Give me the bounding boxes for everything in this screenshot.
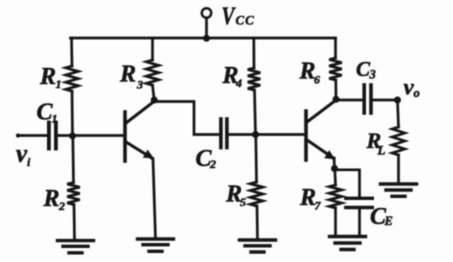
svg-text:2: 2: [209, 157, 216, 171]
wire collector node to C3: [336, 99, 363, 102]
wire base node to R2: [71, 136, 74, 183]
ground G5: [381, 184, 417, 196]
wire C3 to vo: [373, 99, 398, 102]
wire RL to ground: [397, 155, 400, 184]
svg-text:6: 6: [314, 73, 320, 87]
emitter arrow: [143, 150, 154, 159]
wire CE to bottom bar: [358, 209, 361, 236]
resistor R1: [66, 66, 79, 91]
wire Vcc stub: [205, 18, 208, 38]
wire C2 to Q2 base: [229, 133, 305, 136]
svg-text:R: R: [299, 185, 316, 211]
resistor R5: [250, 182, 263, 206]
resistor R4: [248, 68, 261, 90]
svg-text:V: V: [222, 1, 237, 29]
svg-text:R: R: [119, 62, 136, 88]
collector line: [126, 102, 154, 124]
wire vo to RL: [398, 100, 399, 127]
node collector node 1: [151, 97, 158, 104]
base bar: [304, 111, 308, 160]
ground G1: [58, 241, 94, 253]
ground G3: [240, 240, 276, 252]
svg-text:CC: CC: [236, 13, 255, 28]
emitter arrow: [324, 150, 335, 159]
wire rail to R1: [70, 38, 73, 66]
svg-text:i: i: [27, 155, 31, 169]
svg-text:L: L: [377, 143, 386, 158]
svg-text:5: 5: [240, 195, 246, 209]
wire rail corner to R6: [334, 38, 337, 58]
node input terminal: [16, 134, 20, 138]
wire rail to R3: [151, 38, 154, 60]
wire R2 to ground: [73, 205, 76, 241]
svg-text:4: 4: [235, 76, 242, 90]
resistor R7: [329, 185, 342, 208]
svg-text:7: 7: [315, 199, 322, 213]
wire input to C1: [18, 134, 47, 137]
wire R7 to bottom bar: [334, 208, 337, 237]
wire base node 2 to R5: [254, 135, 257, 183]
node base node 2: [252, 131, 259, 138]
resistor R2: [67, 183, 80, 205]
collector line: [307, 101, 336, 123]
svg-text:R: R: [39, 64, 56, 90]
svg-text:R: R: [43, 186, 60, 212]
node base node 1: [69, 132, 76, 139]
node emitter node: [331, 165, 338, 172]
Vcc terminal: [202, 8, 211, 17]
svg-text:E: E: [384, 214, 393, 228]
base bar: [123, 112, 127, 161]
wire emitter node to CE: [335, 170, 360, 197]
transistor Q1: [125, 102, 154, 162]
capacitor C1: [47, 123, 51, 149]
ground G4: [330, 237, 366, 250]
wire C1 to Q1 base: [58, 134, 124, 137]
wire emitter node to R7: [333, 169, 336, 186]
svg-text:1: 1: [52, 112, 58, 126]
capacitor C3: [362, 85, 366, 113]
svg-text:o: o: [414, 86, 420, 100]
resistor R6: [329, 58, 342, 80]
wire collector jog to C2: [154, 102, 219, 135]
svg-text:2: 2: [58, 199, 65, 213]
wire R4 to base node 2: [255, 90, 256, 135]
wire Q2 emitter to emitter node: [333, 158, 336, 169]
wire R6 to collector node 2: [334, 80, 337, 100]
wire rail to R4: [252, 38, 255, 68]
node collector node 2: [333, 96, 340, 103]
node vo: [394, 97, 401, 104]
resistor R3: [146, 60, 159, 85]
ground G2: [138, 239, 174, 251]
svg-text:R: R: [299, 59, 316, 85]
svg-text:1: 1: [56, 77, 62, 91]
svg-text:3: 3: [369, 68, 376, 82]
capacitor CE: [346, 197, 373, 200]
wire Vcc top rail: [71, 37, 336, 40]
emitter line: [307, 140, 334, 159]
wire Q1 emitter to ground: [153, 159, 156, 239]
wire R1 to base node: [71, 91, 74, 135]
resistor RL: [392, 127, 405, 155]
emitter line: [126, 142, 153, 159]
svg-text:3: 3: [136, 78, 143, 92]
transistor Q2: [306, 101, 336, 161]
wire R3 to collector node: [153, 85, 155, 100]
node Vcc junction: [203, 35, 210, 42]
capacitor C2: [219, 119, 223, 148]
wire R5 to ground: [256, 206, 259, 240]
